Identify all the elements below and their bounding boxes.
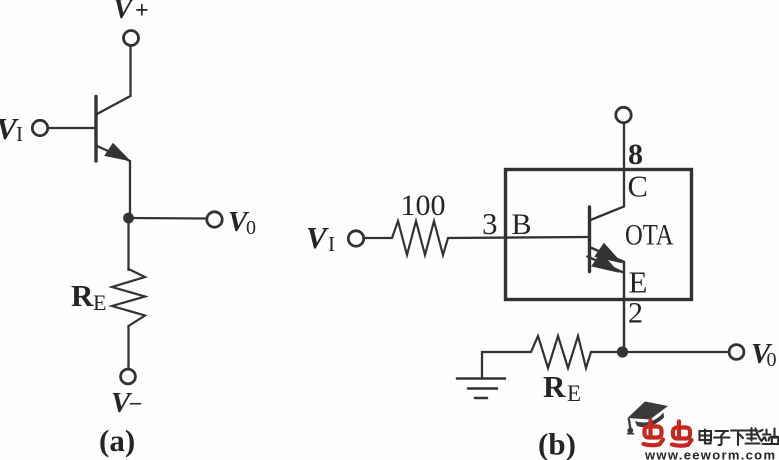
terminal VI (b) [348, 231, 363, 246]
wire node to V0 (b) [623, 351, 730, 353]
svg-text:8: 8 [628, 138, 643, 171]
logo text dianzixiazaizhan [700, 428, 779, 445]
svg-text:V: V [306, 220, 329, 255]
svg-text:V: V [113, 0, 135, 25]
svg-text:0: 0 [767, 349, 777, 371]
ground [457, 379, 505, 399]
svg-text:C: C [628, 170, 648, 204]
label pin 3 [482, 206, 498, 241]
svg-text:+: + [135, 0, 149, 24]
terminal VI (a) [32, 120, 47, 135]
label V0 (a) [228, 206, 256, 239]
OTA box U1 [506, 170, 692, 300]
wire base (a) [48, 127, 95, 129]
wire resistor to V- (a) [127, 326, 129, 369]
resistor RE (b) [531, 336, 591, 368]
svg-text:E: E [629, 265, 648, 300]
label VI (b) [306, 220, 335, 256]
label E [629, 265, 648, 300]
svg-text:(b): (b) [538, 427, 576, 460]
svg-text:E: E [93, 290, 106, 315]
logo graduation cap [627, 402, 668, 435]
label V+ [113, 0, 149, 25]
label RE (b) [543, 369, 581, 406]
svg-text:B: B [512, 208, 532, 241]
svg-text:E: E [567, 381, 581, 406]
terminal V- [121, 369, 136, 384]
transistor Q2 base bar [588, 207, 591, 272]
transistor Q1 base bar [94, 97, 97, 162]
terminal V0 (b) [729, 345, 744, 360]
terminal V0 (a) [207, 212, 222, 227]
wire resistor to ground [482, 352, 531, 378]
caption (a) [99, 423, 135, 458]
svg-text:–: – [129, 389, 142, 414]
logo text chongchong [644, 421, 692, 446]
label V- [111, 387, 142, 419]
label 100 [401, 189, 446, 222]
wire resistor to base (b) [448, 237, 589, 238]
svg-text:R: R [543, 369, 566, 404]
transistor Q1 emitter with arrow [97, 144, 130, 214]
svg-text:(a): (a) [99, 423, 135, 458]
wire VI to resistor (b) [364, 237, 392, 239]
svg-text:I: I [328, 232, 335, 256]
label V0 (b) [751, 338, 777, 371]
label OTA [625, 220, 674, 252]
node emitter (a) [123, 213, 134, 224]
resistor RE (a) [112, 269, 145, 326]
terminal pin8 top [616, 107, 631, 122]
transistor Q2 emitter double arrow [588, 244, 625, 348]
label pin 2 [628, 297, 643, 330]
wire output (a) [129, 217, 207, 220]
node emitter (b) [617, 346, 628, 357]
label RE (a) [71, 278, 106, 315]
svg-text:3: 3 [482, 206, 498, 241]
transistor Q2 collector [591, 123, 625, 220]
svg-text:100: 100 [401, 189, 446, 222]
wire collector vertical (a) [97, 46, 131, 114]
resistor 100 [392, 221, 448, 255]
svg-text:2: 2 [628, 297, 643, 330]
label VI (a) [0, 111, 23, 146]
logo url www.eeworm.com [644, 448, 775, 460]
svg-text:www.eeworm.com: www.eeworm.com [644, 448, 775, 460]
label pin 8 [628, 138, 643, 171]
label B [512, 208, 532, 241]
svg-text:0: 0 [246, 217, 256, 239]
caption (b) [538, 427, 576, 460]
svg-text:R: R [71, 278, 94, 313]
wire node to resistor RE (b) [591, 351, 623, 353]
svg-text:OTA: OTA [625, 220, 674, 252]
label C [628, 170, 648, 204]
svg-text:I: I [16, 122, 23, 146]
terminal V+ [124, 31, 139, 46]
wire node to resistor (a) [127, 218, 129, 270]
